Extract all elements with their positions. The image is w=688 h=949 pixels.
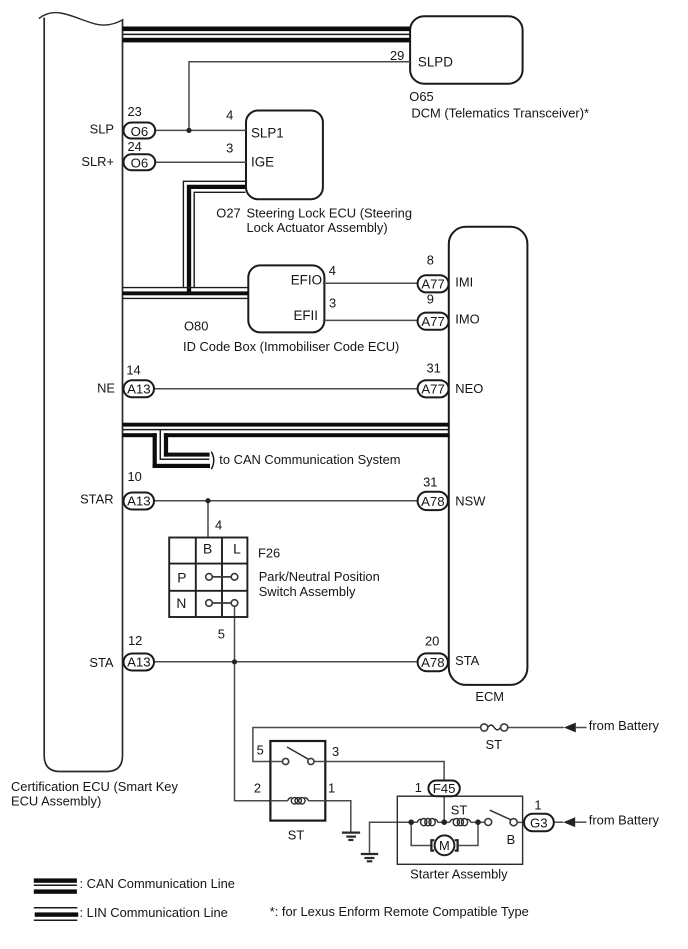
- svg-text:O65: O65: [409, 89, 433, 104]
- svg-text:EFII: EFII: [293, 308, 318, 323]
- svg-text:10: 10: [128, 469, 142, 484]
- svg-text:A13: A13: [127, 494, 150, 509]
- svg-text:Park/Neutral Position: Park/Neutral Position: [259, 569, 380, 584]
- svg-text:*: for Lexus Enform Remote Com: *: for Lexus Enform Remote Compatible Ty…: [270, 904, 529, 919]
- svg-text:F45: F45: [433, 781, 456, 796]
- svg-text:12: 12: [128, 633, 142, 648]
- svg-text:P: P: [177, 570, 186, 585]
- svg-text:31: 31: [423, 474, 437, 489]
- svg-text:: LIN Communication Line: : LIN Communication Line: [80, 905, 228, 920]
- svg-text:SLP: SLP: [90, 122, 114, 137]
- svg-text:NE: NE: [97, 381, 115, 396]
- svg-text:5: 5: [218, 627, 225, 642]
- svg-text:SLR+: SLR+: [81, 154, 114, 169]
- svg-text:5: 5: [257, 743, 264, 758]
- svg-text:23: 23: [128, 104, 142, 119]
- svg-text:IMI: IMI: [455, 275, 473, 290]
- svg-text:SLPD: SLPD: [418, 55, 453, 70]
- svg-text:A13: A13: [127, 655, 150, 670]
- svg-text:Switch Assembly: Switch Assembly: [259, 584, 356, 599]
- svg-text:Starter Assembly: Starter Assembly: [410, 867, 508, 882]
- svg-text:1: 1: [534, 797, 541, 812]
- svg-text:Lock Actuator Assembly): Lock Actuator Assembly): [247, 220, 388, 235]
- svg-text:B: B: [203, 541, 212, 556]
- svg-text:24: 24: [128, 139, 142, 154]
- svg-text:DCM (Telematics Transceiver)*: DCM (Telematics Transceiver)*: [411, 105, 589, 120]
- svg-text:N: N: [176, 596, 186, 611]
- svg-text:4: 4: [329, 263, 336, 278]
- svg-text:A13: A13: [127, 381, 150, 396]
- svg-text:Steering Lock ECU (Steering: Steering Lock ECU (Steering: [247, 205, 413, 220]
- svg-text:SLP1: SLP1: [251, 125, 284, 140]
- svg-text:EFIO: EFIO: [291, 272, 322, 287]
- svg-text:STA: STA: [455, 653, 480, 668]
- svg-text:2: 2: [254, 781, 261, 796]
- svg-text:from Battery: from Battery: [589, 813, 660, 828]
- svg-text:STA: STA: [89, 655, 114, 670]
- svg-text:8: 8: [427, 253, 434, 268]
- svg-text:4: 4: [215, 517, 222, 532]
- svg-text:L: L: [233, 541, 241, 556]
- svg-text:ST: ST: [486, 737, 503, 752]
- svg-text:3: 3: [329, 296, 336, 311]
- svg-text:3: 3: [332, 744, 339, 759]
- svg-text:O80: O80: [184, 319, 208, 334]
- svg-text:A77: A77: [421, 314, 444, 329]
- svg-text:3: 3: [226, 140, 233, 155]
- svg-text:1: 1: [328, 781, 335, 796]
- svg-text:: CAN Communication Line: : CAN Communication Line: [80, 876, 235, 891]
- svg-text:IMO: IMO: [455, 312, 479, 327]
- svg-text:1: 1: [415, 780, 422, 795]
- svg-text:to CAN Communication System: to CAN Communication System: [219, 452, 400, 467]
- svg-text:ID Code Box (Immobiliser Code: ID Code Box (Immobiliser Code ECU): [183, 339, 399, 354]
- svg-text:ECM: ECM: [475, 689, 504, 704]
- svg-text:M: M: [439, 838, 450, 853]
- svg-text:IGE: IGE: [251, 155, 274, 170]
- svg-text:29: 29: [390, 48, 404, 63]
- svg-text:20: 20: [425, 634, 439, 649]
- svg-text:Certification ECU (Smart Key: Certification ECU (Smart Key: [11, 779, 178, 794]
- svg-text:ST: ST: [288, 827, 305, 842]
- svg-text:NEO: NEO: [455, 381, 483, 396]
- svg-text:from Battery: from Battery: [589, 718, 660, 733]
- svg-text:F26: F26: [258, 545, 280, 560]
- svg-text:A78: A78: [421, 494, 444, 509]
- svg-text:A77: A77: [421, 277, 444, 292]
- svg-text:ST: ST: [451, 803, 468, 818]
- svg-text:A78: A78: [421, 655, 444, 670]
- svg-text:A77: A77: [421, 382, 444, 397]
- svg-text:9: 9: [427, 291, 434, 306]
- svg-text:STAR: STAR: [80, 492, 113, 507]
- svg-text:31: 31: [427, 361, 441, 376]
- svg-text:O27: O27: [216, 205, 240, 220]
- svg-text:G3: G3: [530, 815, 548, 830]
- svg-text:14: 14: [126, 362, 140, 377]
- svg-text:ECU Assembly): ECU Assembly): [11, 794, 101, 809]
- svg-text:O6: O6: [131, 124, 149, 139]
- svg-text:NSW: NSW: [455, 493, 486, 508]
- svg-text:4: 4: [226, 107, 233, 122]
- svg-text:O6: O6: [131, 156, 149, 171]
- svg-text:B: B: [507, 832, 516, 847]
